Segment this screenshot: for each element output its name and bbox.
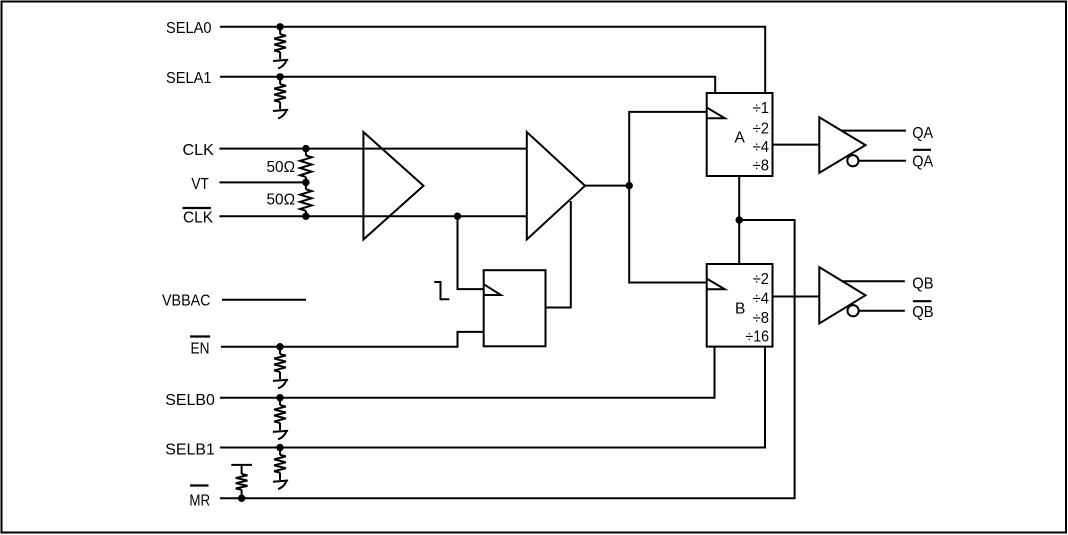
svg-text:CLK: CLK	[183, 142, 215, 159]
svg-text:CLK: CLK	[183, 210, 214, 227]
amplifier differential input buffer 2	[527, 132, 585, 240]
wire QA output	[842, 130, 906, 132]
svg-text:QA: QA	[912, 125, 934, 142]
bubble QB-bar inverter	[848, 305, 859, 316]
svg-text:÷1: ÷1	[753, 100, 769, 117]
wire CLK-bar to input buffer	[219, 215, 526, 217]
wire divider A bottom to divider B top	[738, 176, 740, 264]
resistor pulldown on SELB0	[279, 398, 281, 405]
wire CLK-bar branch to latch clock	[458, 216, 484, 289]
wire MR-bar to dividers reset	[220, 220, 795, 498]
wire CLK to input buffer	[219, 148, 526, 150]
svg-text:÷4: ÷4	[753, 290, 770, 307]
wire SELB0 to divider B bottom	[220, 347, 715, 398]
junction SELA0/pulldown	[276, 23, 283, 30]
wire QB-bar output	[859, 310, 905, 312]
wire QB output	[842, 280, 905, 282]
wire buffer2 output to node	[585, 185, 629, 187]
svg-text:SELA0: SELA0	[166, 20, 212, 37]
svg-text:÷2: ÷2	[753, 120, 769, 137]
svg-text:SELB0: SELB0	[165, 392, 215, 409]
resistor 50ohm VT-CLKbar	[305, 182, 307, 189]
junction CLK-bar/latch clock branch	[454, 213, 461, 220]
resistor pulldown on SELA0	[279, 27, 281, 34]
amplifier QB output buffer	[819, 267, 865, 323]
node main clock junction	[626, 182, 633, 189]
junction SELB1/pulldown	[276, 444, 283, 451]
junction CLK-bar/50ohm	[302, 213, 309, 220]
svg-text:QA: QA	[912, 154, 934, 171]
svg-text:÷8: ÷8	[753, 310, 769, 327]
svg-text:÷4: ÷4	[753, 139, 770, 156]
amplifier QA output buffer	[819, 117, 865, 173]
falling edge waveform symbol	[434, 282, 449, 299]
bubble QA-bar inverter	[847, 155, 858, 166]
wire VT to termination resistors	[219, 181, 306, 183]
resistor pulldown on EN	[279, 347, 281, 354]
svg-text:EN: EN	[191, 340, 210, 357]
wire VBBAC stub	[222, 299, 306, 301]
wire SELA1 to divider A top	[220, 77, 715, 93]
divider B clock wedge	[707, 279, 725, 290]
wire node to divider B clock	[629, 186, 707, 283]
svg-text:QB: QB	[912, 276, 933, 293]
overline QB-bar	[913, 300, 932, 302]
divider B box	[707, 264, 773, 347]
divider A box	[707, 93, 773, 176]
junction VT/50ohm	[302, 179, 309, 186]
svg-text:50Ω: 50Ω	[267, 192, 296, 209]
wire divider A to QA buffer	[773, 144, 820, 146]
resistor pulldown on SELB1	[279, 448, 281, 455]
wire divider B to QB buffer	[773, 296, 820, 298]
svg-text:MR: MR	[189, 492, 210, 509]
junction SELA1/pulldown	[276, 73, 283, 80]
overline CLK-bar	[183, 207, 212, 209]
wire SELA0 to divider A top	[220, 27, 765, 93]
svg-text:SELB1: SELB1	[165, 441, 215, 458]
overline MR-bar	[190, 484, 208, 486]
latch clock wedge	[484, 284, 501, 295]
svg-text:÷16: ÷16	[745, 328, 769, 345]
junction SELB0/pulldown	[276, 394, 283, 401]
junction CLK/50ohm	[302, 145, 309, 152]
wire QA-bar output	[859, 160, 907, 162]
wire latch output to buffer2 gate	[546, 201, 571, 308]
svg-text:÷2: ÷2	[753, 271, 769, 288]
svg-text:÷8: ÷8	[753, 157, 769, 174]
svg-text:SELA1: SELA1	[166, 70, 212, 87]
svg-text:VT: VT	[191, 176, 209, 193]
wire node to divider A clock	[629, 112, 707, 186]
overline QA-bar	[913, 149, 931, 151]
junction MR/pullup	[238, 495, 245, 502]
latch U1 box	[484, 270, 546, 346]
divider A clock wedge	[707, 108, 725, 119]
wire EN-bar to latch	[221, 332, 484, 347]
resistor pullup on MR with supply bar	[231, 464, 252, 466]
overline EN-bar	[190, 335, 210, 337]
svg-text:50Ω: 50Ω	[267, 159, 296, 176]
svg-text:VBBAC: VBBAC	[162, 293, 211, 310]
svg-text:QB: QB	[912, 304, 933, 321]
svg-text:B: B	[735, 301, 745, 318]
svg-text:A: A	[735, 130, 746, 147]
junction EN/pulldown	[276, 343, 283, 350]
wire SELB1 to divider B bottom	[220, 347, 765, 448]
resistor pulldown on SELA1	[279, 77, 281, 84]
amplifier differential input buffer 1	[363, 132, 423, 240]
junction A-B/MR	[736, 216, 743, 223]
resistor 50ohm CLK-VT	[305, 149, 307, 156]
